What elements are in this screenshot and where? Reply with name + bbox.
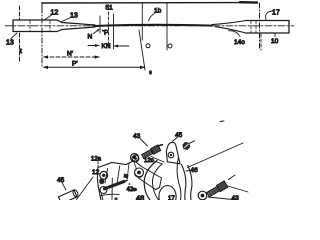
hub hole — [159, 186, 176, 208]
plate lug hole — [168, 152, 174, 158]
vertical dim line x=167.5 — [166, 3, 168, 50]
leader 10 tick — [274, 34, 276, 37]
arm right edge — [188, 166, 192, 201]
disc outer left arc — [144, 161, 157, 201]
leader 45 — [173, 138, 178, 142]
svg-text:P': P' — [72, 61, 78, 68]
slant end mark — [149, 70, 152, 74]
leader 45 left — [62, 183, 66, 191]
top dimension left tick — [41, 3, 43, 9]
stud bolt dark — [105, 182, 125, 189]
top dimension line — [42, 1, 257, 4]
svg-text:12: 12 — [92, 169, 100, 176]
bolt 43 head — [151, 145, 161, 154]
bracket rib 2 — [117, 166, 120, 183]
bracket inner vertical — [111, 178, 113, 200]
right block inner step lines — [251, 21, 256, 33]
leader 43 — [140, 139, 148, 147]
left taper top — [57, 20, 95, 25]
leader line A — [188, 143, 244, 168]
vertical dashed line x=19.5 — [19, 6, 21, 20]
bracket rib 1 — [105, 168, 108, 183]
svg-text:N: N — [88, 34, 93, 41]
N prime dim line — [44, 56, 99, 58]
bracket rib 3 — [127, 164, 129, 181]
stud tip — [124, 181, 127, 182]
bracket right arm end — [156, 178, 162, 190]
dot — [129, 183, 131, 185]
KN right arrow — [114, 45, 129, 47]
top dimension line right thick end — [240, 1, 257, 4]
vertical dashed line x=19.5 lower — [19, 33, 21, 61]
left taper bottom — [57, 27, 95, 32]
svg-text:t: t — [20, 48, 22, 55]
stud ring flange — [100, 187, 107, 194]
boss2 face line — [134, 162, 137, 169]
svg-text:10: 10 — [271, 38, 279, 45]
leader 46 tick — [186, 170, 190, 173]
svg-text:48: 48 — [136, 194, 144, 201]
shaft left block — [13, 20, 57, 32]
washer lower right — [198, 191, 207, 200]
svg-text:46: 46 — [191, 167, 199, 174]
P arrowhead — [102, 30, 105, 33]
bracket top edge — [98, 161, 142, 168]
svg-text:43: 43 — [232, 195, 240, 200]
svg-text:12: 12 — [51, 10, 59, 17]
boss ring right — [135, 168, 144, 177]
svg-text:45: 45 — [57, 177, 65, 184]
label b2 circle — [168, 44, 172, 48]
shaft centerline — [5, 25, 294, 27]
shaft right block — [246, 21, 289, 34]
washer 12b above bracket — [132, 155, 139, 162]
svg-text:51: 51 — [106, 5, 114, 12]
vertical dash-dot line x=259.5 — [259, 3, 261, 50]
dark nut at bracket bottom — [132, 188, 137, 192]
bolt 47 threads — [206, 181, 228, 198]
cylinder part left — [58, 189, 79, 204]
thin rod — [95, 25, 212, 26]
disc right rim arc — [177, 157, 181, 200]
nut tick — [189, 141, 194, 144]
bolt 43 threads — [141, 143, 164, 159]
vertical dim line x=142 — [141, 3, 143, 40]
leader 140 hook — [229, 31, 241, 37]
svg-text:1b: 1b — [154, 8, 162, 15]
svg-text:KN: KN — [102, 43, 111, 50]
leader 17 hook — [266, 11, 272, 20]
leader 13 — [62, 18, 72, 22]
vertical dashed 51 line — [108, 7, 110, 48]
line from bolt head down right — [228, 186, 248, 192]
bracket left edge — [97, 168, 101, 201]
left block inner dashes — [30, 21, 50, 32]
N arrow — [94, 29, 100, 33]
svg-text:N': N' — [67, 51, 73, 58]
KN left arrow — [88, 45, 99, 47]
leader 13 bottom left — [11, 33, 17, 39]
cut glyph bottom — [115, 198, 118, 201]
vertical line x=113.5 — [113, 14, 115, 49]
small dark block center — [124, 174, 129, 179]
svg-text:43: 43 — [133, 133, 141, 140]
hex nut 45 — [183, 142, 190, 149]
svg-text:14o: 14o — [234, 39, 245, 46]
bracket right arm bottom edge — [139, 178, 156, 190]
stud head blob — [99, 178, 104, 184]
bracket right arm top edge — [142, 167, 162, 179]
disc inner left arc — [152, 164, 162, 200]
vertical dashed x=261 lower — [260, 34, 262, 50]
leader line B — [77, 177, 94, 200]
boss ring left — [100, 171, 108, 179]
bracket to disc link lines — [148, 157, 165, 165]
line under bolt — [208, 197, 237, 200]
svg-text:17: 17 — [168, 196, 175, 200]
tiny dash top — [220, 120, 224, 123]
P prime dim line — [44, 66, 144, 68]
svg-text:12a: 12a — [91, 157, 102, 163]
svg-text:17: 17 — [272, 10, 280, 17]
bracket bottom edge — [101, 194, 119, 195]
svg-text:P: P — [104, 30, 108, 37]
right taper top — [212, 21, 246, 25]
label b circle — [146, 44, 150, 48]
right taper bottom — [215, 27, 246, 33]
bolt 47 tip line — [229, 175, 236, 180]
leader 1b — [149, 13, 156, 21]
leader 12 — [45, 15, 52, 20]
bolt 47 head — [216, 181, 227, 192]
triangular plate — [166, 142, 180, 163]
svg-text:13: 13 — [70, 13, 78, 20]
slanted leader line b — [139, 30, 145, 70]
svg-text:13: 13 — [6, 40, 14, 47]
vertical dash-dot line x=42 — [41, 8, 43, 68]
washer under bolt 43 — [131, 154, 139, 162]
vertical line x=100 — [99, 16, 101, 33]
leader 12a — [97, 162, 99, 168]
bracket bottom left edge — [102, 194, 104, 200]
arm left edge — [182, 165, 186, 201]
